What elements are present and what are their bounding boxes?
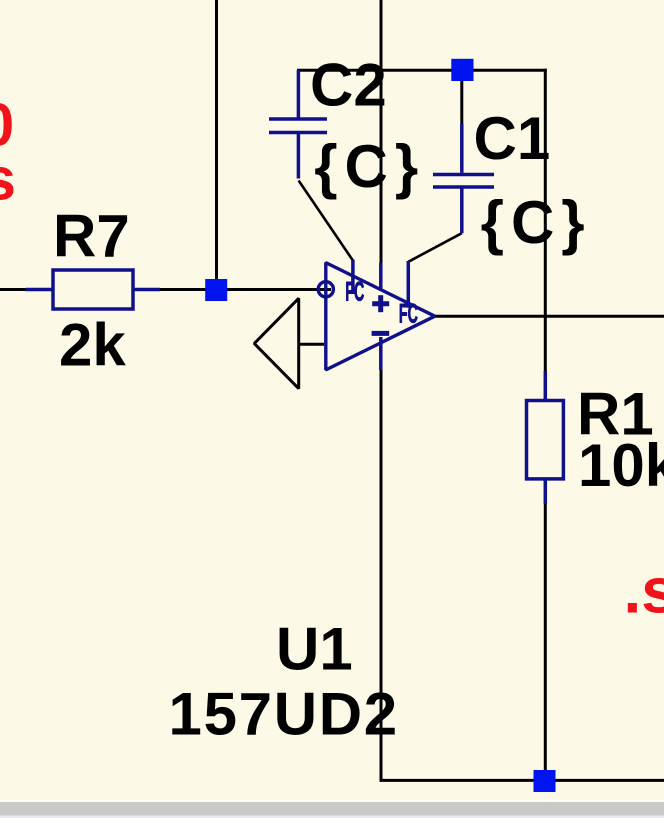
svg-text:157UD2: 157UD2 [169,681,399,748]
svg-text:R7: R7 [53,203,130,270]
svg-text:U1: U1 [276,616,353,683]
svg-text:C1: C1 [474,105,551,172]
svg-text:10k: 10k [578,432,664,499]
svg-text:C2: C2 [310,52,387,119]
svg-text:s: s [0,146,16,213]
svg-text:FC: FC [399,298,418,328]
svg-text:.step: .step [624,555,664,627]
svg-text:{C}: {C} [314,133,425,200]
svg-text:{C}: {C} [481,189,592,256]
svg-text:FC: FC [345,276,364,306]
svg-text:2k: 2k [59,312,126,379]
